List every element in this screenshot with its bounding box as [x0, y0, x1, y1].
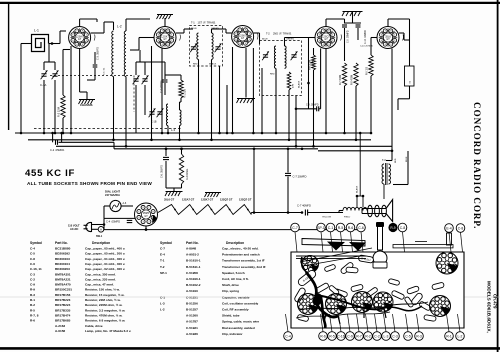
svg-text:BR17B474: BR17B474	[55, 313, 71, 317]
capacitor C-9 to ground	[344, 22, 361, 24]
svg-text:DIAL LIGHT: DIAL LIGHT	[105, 190, 120, 194]
wire bus y146	[56, 145, 392, 147]
component mid C	[388, 278, 400, 285]
wire plug to junction	[92, 224, 105, 226]
component resistor tilt 1	[315, 282, 330, 293]
svg-text:BLACK: BLACK	[298, 80, 301, 88]
heater pips	[174, 209, 176, 211]
svg-text:Ch.479: Ch.479	[493, 294, 498, 309]
wire V1 plate to L-2	[91, 32, 104, 34]
svg-text:C-4: C-4	[30, 247, 35, 251]
svg-text:C-4: C-4	[285, 334, 291, 338]
component mid D	[404, 296, 414, 308]
gang dashed line	[50, 75, 134, 77]
pilot lamp A-6158	[110, 200, 121, 211]
svg-text:L-3: L-3	[171, 128, 175, 132]
scan fold line	[0, 296, 500, 298]
T-2 secondary winding	[285, 46, 287, 68]
IF transformer T-1 shield box	[190, 26, 223, 67]
svg-text:A-51193: A-51193	[186, 289, 198, 293]
svg-text:A-51190-1: A-51190-1	[186, 277, 201, 281]
wire V3 right lead to bus	[252, 48, 254, 133]
oscillator coil L-3 winding A	[166, 104, 168, 126]
svg-text:E-4: E-4	[160, 253, 165, 257]
svg-text:Spring, cable, music wire: Spring, cable, music wire	[222, 320, 259, 324]
svg-text:12SA7 GT: 12SA7 GT	[182, 198, 195, 202]
T-3 core	[385, 163, 387, 185]
IF can B-51610	[302, 256, 319, 273]
power plug 110V AC-DC	[86, 222, 92, 231]
ground top center-right	[342, 12, 363, 17]
svg-text:C-8 .05MFD: C-8 .05MFD	[306, 105, 319, 107]
variable capacitor C-1A	[41, 70, 48, 79]
svg-text:R-1: R-1	[446, 334, 452, 338]
svg-text:BLACK: BLACK	[209, 63, 217, 66]
wire V5 plate right	[399, 32, 404, 34]
tube V5 35L6 output	[377, 27, 403, 49]
svg-text:Coil, oscillator assembly: Coil, oscillator assembly	[222, 301, 259, 305]
tube socket cluster 4	[373, 292, 393, 312]
svg-text:C-7 40MFD: C-7 40MFD	[297, 204, 311, 208]
component tilt 4	[351, 284, 364, 292]
harness cross wires	[300, 302, 428, 310]
wire bus right segment y151	[318, 150, 392, 152]
tilted resistor below volume	[340, 261, 354, 274]
wire T-2 secondary to V4 grid	[284, 38, 286, 47]
svg-text:BD400103: BD400103	[55, 257, 70, 261]
harness upper branch	[301, 257, 306, 272]
svg-text:C-4 .05MFD: C-4 .05MFD	[106, 220, 120, 224]
T-1 primary trimmer	[190, 43, 197, 52]
svg-text:CONCORD RADIO CORP.: CONCORD RADIO CORP.	[472, 102, 482, 229]
component left lower	[297, 314, 309, 322]
oscillator trimmer	[142, 75, 149, 84]
svg-text:C-3: C-3	[30, 272, 35, 276]
svg-text:Cap., paper, .05 mfd., 200 v.: Cap., paper, .05 mfd., 200 v.	[85, 252, 125, 256]
output transformer core	[362, 209, 386, 214]
svg-text:Cap., mica, 220 mmf.: Cap., mica, 220 mmf.	[85, 277, 116, 281]
component mid lower A	[328, 285, 339, 296]
svg-text:L-3: L-3	[384, 334, 389, 338]
svg-text:1ST I.F. TRANS.: 1ST I.F. TRANS.	[198, 22, 217, 25]
svg-text:C-8: C-8	[458, 226, 464, 230]
wire L-2 secondary to bus	[125, 77, 127, 147]
svg-text:C-3 47MMF: C-3 47MMF	[160, 80, 163, 93]
svg-text:GT: GT	[324, 38, 328, 41]
wire padder return	[226, 85, 228, 133]
tube V3 12SK7 IF amplifier	[232, 26, 258, 48]
svg-text:Resistor, 22M ohm, ½ w.: Resistor, 22M ohm, ½ w.	[85, 298, 121, 302]
svg-text:Cap., mica, 47 mmf.: Cap., mica, 47 mmf.	[85, 283, 114, 287]
svg-text:C-10 .02MFD: C-10 .02MFD	[365, 30, 367, 44]
component near right socket	[432, 282, 445, 290]
svg-text:12SQ7 GT: 12SQ7 GT	[239, 198, 252, 202]
osc resistor R-1 22M	[179, 80, 183, 98]
svg-text:C-3 .05MFD: C-3 .05MFD	[97, 47, 100, 60]
oscillator coil L-3 winding B	[180, 110, 182, 126]
dial bar right	[393, 245, 453, 248]
tube socket cluster 1	[298, 294, 319, 315]
wire AVC dashed bus	[34, 128, 182, 130]
svg-text:Dial assembly, welded: Dial assembly, welded	[222, 326, 255, 330]
chassis top short line	[415, 241, 427, 243]
wire step to y149	[113, 142, 115, 149]
svg-text:R-4 500M: R-4 500M	[310, 60, 312, 70]
svg-text:GREEN: GREEN	[286, 39, 294, 41]
svg-text:Symbol: Symbol	[30, 241, 42, 245]
svg-text:R-1 22M: R-1 22M	[184, 89, 187, 98]
svg-text:Transformer assembly, 2nd IF: Transformer assembly, 2nd IF	[222, 265, 266, 269]
wire ground stem to caps	[352, 12, 354, 24]
svg-text:Speaker, 5-inch: Speaker, 5-inch	[222, 271, 245, 275]
oscillator grid resistor R-2	[61, 95, 65, 118]
svg-text:C-9 .05MFD: C-9 .05MFD	[348, 30, 350, 43]
coil L-2 assembly tilted	[411, 292, 424, 306]
svg-text:CHASSIS: CHASSIS	[80, 103, 93, 107]
speaker cone SP-1	[386, 200, 393, 222]
svg-text:2ND I.F. TRANS.: 2ND I.F. TRANS.	[273, 33, 292, 36]
wire L-1 to 12SA7 grid	[49, 43, 61, 45]
svg-text:Cap., mica, 350 mmf.: Cap., mica, 350 mmf.	[85, 272, 116, 276]
svg-text:L-1: L-1	[34, 29, 39, 33]
svg-text:T-3: T-3	[382, 158, 386, 162]
svg-text:Description: Description	[226, 241, 244, 245]
svg-text:Resistor, 15 megohm, ½ w.: Resistor, 15 megohm, ½ w.	[85, 293, 125, 297]
svg-text:T-2: T-2	[266, 32, 270, 36]
wire osc coil bottoms	[167, 126, 169, 133]
svg-text:A-51787: A-51787	[186, 320, 198, 324]
svg-text:12SK7 GT: 12SK7 GT	[201, 198, 214, 202]
volume shaft	[378, 224, 383, 250]
svg-text:E-4: E-4	[446, 226, 451, 230]
svg-text:R-6: R-6	[320, 334, 326, 338]
svg-text:Cap., paper, .01 mfd., 400 v.: Cap., paper, .01 mfd., 400 v.	[85, 257, 125, 261]
wire L-2 primary to bus	[113, 77, 115, 140]
capacitor C-6 to chassis	[165, 149, 167, 156]
wire C-16 bottom	[409, 86, 411, 99]
svg-text:C-9: C-9	[30, 283, 35, 287]
wire heater lower	[104, 217, 135, 219]
svg-text:R-5: R-5	[329, 334, 335, 338]
resistor R-8 470M	[354, 63, 358, 86]
svg-text:AC-DC: AC-DC	[70, 227, 78, 231]
svg-text:Coil, RF assembly: Coil, RF assembly	[222, 308, 249, 312]
svg-text:A-8948: A-8948	[186, 247, 196, 251]
svg-text:#47 MAZDA: #47 MAZDA	[105, 193, 120, 197]
T-1 primary winding	[197, 33, 199, 59]
svg-text:Transformer assembly, 1st IF: Transformer assembly, 1st IF	[222, 259, 265, 263]
svg-text:GT: GT	[144, 215, 148, 218]
svg-text:Cord, AC line, 6 ft.: Cord, AC line, 6 ft.	[222, 277, 249, 281]
svg-text:R-3: R-3	[30, 293, 35, 297]
svg-text:C-7 20MFD: C-7 20MFD	[293, 175, 307, 179]
svg-text:C-7: C-7	[160, 247, 165, 251]
svg-text:RED: RED	[395, 158, 397, 163]
wire V1 screen to bus	[70, 46, 72, 133]
svg-text:Part No.: Part No.	[55, 241, 68, 245]
svg-text:C-3: C-3	[392, 334, 398, 338]
padder capacitor C-3 47MMF	[164, 75, 166, 79]
component tilt 6	[407, 286, 420, 295]
wire V4 cathode	[325, 49, 327, 134]
svg-text:C-5: C-5	[405, 334, 411, 338]
svg-text:Resistor, 6 8 megohm, ½ w.: Resistor, 6 8 megohm, ½ w.	[85, 319, 125, 323]
svg-text:C-2: C-2	[30, 277, 35, 281]
page border left rule	[8, 3, 10, 130]
rectifier socket 35Z5 pin view	[135, 203, 158, 226]
tube V2 12SK7 IF amp	[154, 27, 180, 49]
svg-text:SW-1: SW-1	[96, 235, 103, 238]
svg-text:A: A	[100, 228, 102, 232]
wire B- bus y133	[15, 132, 371, 134]
dial drive rails	[296, 255, 366, 257]
tube V1 12SA7 converter	[69, 27, 95, 49]
svg-text:B-51257: B-51257	[186, 308, 198, 312]
svg-text:C-1B: C-1B	[151, 121, 157, 124]
dial cord diagonal	[300, 248, 372, 262]
svg-text:12SQ7 GT: 12SQ7 GT	[220, 198, 233, 202]
svg-text:Lamp, pilot, No. 47 Mazda 6.3: Lamp, pilot, No. 47 Mazda 6.3 v.	[85, 329, 131, 333]
svg-text:BR17B223: BR17B223	[55, 298, 71, 302]
chassis outline	[291, 252, 464, 328]
svg-text:BR17B335: BR17B335	[55, 308, 71, 312]
svg-text:R-7, 8: R-7, 8	[30, 313, 39, 317]
svg-text:R-7: R-7	[356, 334, 362, 338]
tube socket cluster 2	[326, 294, 347, 315]
svg-text:110 VOLT: 110 VOLT	[68, 224, 80, 228]
junction dots on buses	[20, 132, 23, 135]
capacitor C-2 .05MFD line	[52, 133, 54, 142]
svg-text:BD400203: BD400203	[55, 267, 70, 271]
wire T-3 bottom to voice coil	[383, 184, 385, 199]
svg-text:BLUE: BLUE	[262, 39, 268, 41]
wire V2 plate to T-1	[176, 32, 184, 34]
svg-text:C-16, 11: C-16, 11	[30, 267, 42, 271]
svg-text:C-5 .01: C-5 .01	[104, 67, 106, 75]
svg-text:T-1: T-1	[160, 259, 165, 263]
bottom callout leaders	[286, 314, 289, 332]
svg-text:Cable, drive: Cable, drive	[85, 324, 103, 328]
IF can label	[297, 269, 317, 287]
wire V5 cathode down	[391, 49, 393, 151]
electrolytic C-16 .02MFD	[405, 66, 415, 86]
svg-text:455 KC IF: 455 KC IF	[25, 168, 75, 179]
heater string zigzag	[158, 205, 251, 215]
component capacitor tilt 2	[334, 288, 348, 297]
wire L-2 tops	[125, 19, 127, 31]
svg-text:GT: GT	[78, 38, 82, 41]
T-1 secondary trimmer	[215, 43, 222, 52]
chassis top callouts	[291, 223, 300, 232]
svg-text:Resistor, 150 ohm, ½ w.: Resistor, 150 ohm, ½ w.	[85, 288, 120, 292]
T-2 primary trimmer	[262, 51, 269, 60]
svg-text:R-2: R-2	[365, 334, 371, 338]
svg-text:A-2163: A-2163	[55, 324, 65, 328]
svg-text:C-8: C-8	[400, 226, 406, 230]
svg-text:BLUE: BLUE	[191, 28, 197, 30]
wire V1 grid stub	[62, 50, 64, 81]
component electrolytic C-7 can	[294, 287, 307, 303]
svg-text:A-6: A-6	[123, 202, 127, 205]
component mid lower B	[366, 287, 378, 298]
coupling capacitor C-8 .05MFD	[308, 83, 310, 109]
svg-text:R-1: R-1	[30, 298, 35, 302]
svg-text:A-51260: A-51260	[186, 314, 198, 318]
svg-text:C-2 .05MFD.: C-2 .05MFD.	[50, 148, 65, 152]
svg-text:R-7 470M: R-7 470M	[340, 75, 342, 85]
svg-text:Resistor, 470M ohm, ½ w.: Resistor, 470M ohm, ½ w.	[85, 313, 123, 317]
page border top rule	[0, 2, 500, 4]
svg-text:Cap., paper, .02 mfd., 400 v.: Cap., paper, .02 mfd., 400 v.	[85, 267, 125, 271]
ground below C-6 R-3	[166, 187, 182, 189]
svg-text:Cap., paper, .05 mfd., 400 v.: Cap., paper, .05 mfd., 400 v.	[85, 247, 125, 251]
svg-text:L-2: L-2	[117, 25, 122, 29]
svg-text:C-7: C-7	[292, 226, 298, 230]
svg-text:R-6: R-6	[348, 226, 354, 230]
svg-text:R-6: R-6	[30, 319, 35, 323]
gang dashed vertical	[133, 76, 135, 113]
svg-text:C-8: C-8	[30, 257, 35, 261]
svg-text:RED: RED	[270, 74, 275, 76]
component near volume	[346, 267, 358, 273]
ground chassis below V1	[79, 100, 96, 105]
resistor R-9 150 ohm	[369, 55, 373, 76]
wire T-1 right lead to bus	[219, 66, 221, 133]
svg-text:Potentiometer and switch: Potentiometer and switch	[222, 253, 260, 257]
wire T-2 primary bottom to bus	[275, 68, 277, 133]
volume pot body	[373, 251, 387, 265]
svg-text:B-51256: B-51256	[186, 301, 198, 305]
component top mid	[324, 264, 336, 272]
svg-text:RED: RED	[193, 64, 198, 66]
wire right vertical to output	[407, 110, 409, 151]
component tilt 5	[391, 290, 405, 300]
svg-text:BR150C251: BR150C251	[55, 288, 72, 292]
svg-text:Shaft, drive: Shaft, drive	[222, 283, 239, 287]
wiring harness thick cable	[306, 272, 338, 317]
svg-text:BR17B156: BR17B156	[55, 293, 71, 297]
tube socket cluster 3	[352, 292, 373, 313]
output transformer T-3 secondary	[389, 164, 391, 184]
svg-text:BD206392: BD206392	[55, 252, 70, 256]
svg-text:R-2: R-2	[30, 303, 35, 307]
wire T-2 leads to bus	[261, 68, 263, 133]
svg-text:Cap., paper, .01 mfd., 400 v.: Cap., paper, .01 mfd., 400 v.	[85, 262, 125, 266]
wire V3 cathode down to ground	[245, 48, 247, 98]
svg-text:B-51610-1: B-51610-1	[186, 259, 201, 263]
svg-text:C-16: C-16	[337, 334, 344, 338]
wire osc top	[165, 74, 181, 76]
dial dark pointers	[327, 242, 345, 251]
harness black blob	[313, 293, 323, 306]
ground above heater labels	[205, 193, 222, 198]
svg-text:BR17B224: BR17B224	[55, 303, 71, 307]
wire V5 top to B+	[387, 19, 389, 27]
diode load resistor 47M inside T-2	[287, 72, 291, 90]
capacitor C-4 plates	[127, 220, 133, 222]
svg-text:SP-1: SP-1	[160, 271, 167, 275]
RF coil L-2 primary	[112, 31, 114, 77]
wire T-1 secondary bottom	[211, 59, 213, 139]
wire V5 plate to T-3	[391, 151, 393, 161]
ground below V3	[237, 99, 256, 104]
tube socket cluster right bottom	[430, 296, 451, 317]
T-1 secondary winding	[212, 33, 214, 59]
wire heater return vertical	[253, 149, 255, 213]
oscillator trimmer C-1B pair	[149, 108, 156, 117]
svg-text:BD400104: BD400104	[55, 262, 70, 266]
svg-text:BM78A351: BM78A351	[55, 272, 71, 276]
RF coil L-2 secondary	[124, 31, 126, 77]
dial plate bar	[302, 239, 365, 247]
svg-text:B-51162-2: B-51162-2	[186, 283, 201, 287]
wire V4 plate top	[325, 19, 327, 27]
wire V2 cathode down	[161, 49, 163, 134]
svg-text:R-9: R-9	[30, 288, 35, 292]
svg-text:35L6 GT: 35L6 GT	[164, 198, 175, 202]
component right lower	[424, 314, 437, 321]
svg-text:R-5: R-5	[30, 308, 35, 312]
resistor R-7 470M	[342, 63, 346, 86]
wire V5 grid left	[371, 37, 377, 39]
svg-text:B-51611-1: B-51611-1	[186, 265, 201, 269]
svg-text:GT: GT	[386, 38, 390, 41]
svg-text:T-2: T-2	[160, 265, 165, 269]
component IF can 2	[358, 255, 374, 264]
output transformer windings	[368, 205, 373, 217]
top callout leaders	[295, 232, 297, 252]
svg-text:MODELS 6D61B,6D61X,: MODELS 6D61B,6D61X,	[487, 281, 492, 333]
wire V2 left to L-2	[139, 37, 154, 39]
svg-text:C-9: C-9	[347, 334, 353, 338]
T-2 primary winding	[274, 46, 276, 68]
output transformer T-3 primary	[382, 164, 384, 184]
wire bottom heater bus	[104, 229, 358, 231]
svg-text:C-6 .05MFD: C-6 .05MFD	[161, 165, 164, 178]
wire T-3 right to C-16 line	[407, 151, 409, 185]
wire V4 grid left	[309, 37, 316, 39]
wire V1 cathode down	[79, 49, 81, 93]
resistor R-3 8 megohm	[179, 154, 183, 184]
svg-text:L-2: L-2	[160, 308, 165, 312]
IF transformer T-2 shield box	[260, 41, 302, 96]
svg-text:Clip, indicator: Clip, indicator	[222, 332, 243, 336]
svg-text:R-3 8MEG.: R-3 8MEG.	[186, 168, 189, 180]
svg-text:Shield, tube: Shield, tube	[222, 314, 240, 318]
svg-text:R-9: R-9	[390, 226, 395, 230]
svg-text:T-1: T-1	[191, 21, 195, 25]
antenna coil L-1	[32, 29, 49, 52]
wire T-1 secondary top to V3 grid	[211, 29, 213, 33]
T-2 secondary trimmer	[291, 51, 298, 60]
svg-text:FIELD: FIELD	[344, 217, 351, 219]
wire lamp right to socket	[121, 205, 133, 207]
svg-text:C-51921: C-51921	[186, 326, 198, 330]
page border right scan edge	[497, 0, 499, 352]
svg-text:R-3: R-3	[416, 334, 422, 338]
chassis bottom callouts	[284, 332, 293, 341]
svg-text:YELLOW: YELLOW	[322, 217, 332, 219]
wire lamp left down	[104, 205, 110, 207]
svg-text:C-5: C-5	[30, 252, 35, 256]
svg-text:R-8 470M: R-8 470M	[352, 75, 354, 85]
svg-text:Resistor, 3.3 megohm, ½ w.: Resistor, 3.3 megohm, ½ w.	[85, 308, 125, 312]
svg-text:GT: GT	[163, 38, 167, 41]
svg-text:Clip, spring: Clip, spring	[222, 289, 239, 293]
svg-text:L-3: L-3	[160, 301, 165, 305]
svg-text:C-2: C-2	[374, 334, 380, 338]
volume control R-4 potentiometer	[312, 55, 316, 70]
